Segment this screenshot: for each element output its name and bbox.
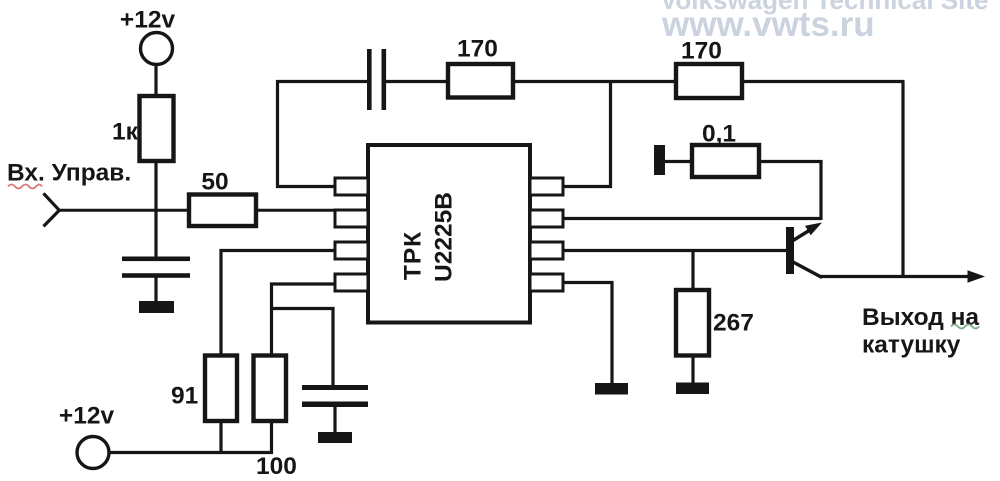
svg-text:Вх. Управ.: Вх. Управ. xyxy=(7,160,131,187)
capacitor C input top plate xyxy=(122,257,190,262)
output arrowhead xyxy=(968,270,986,282)
wire pin L3 to R91 xyxy=(221,251,336,357)
svg-text:170: 170 xyxy=(457,36,498,63)
wire corner down to emitter node xyxy=(819,162,822,221)
transistor Q1 emitter arrowhead xyxy=(805,223,822,236)
capacitor C bottom top plate xyxy=(302,385,368,390)
svg-text:катушку: катушку xyxy=(862,332,961,359)
wire cap to ground xyxy=(154,278,157,303)
resistor R50 body xyxy=(189,195,256,227)
IC pin L2 xyxy=(335,210,368,227)
wire R100 bottom to rail xyxy=(270,421,273,454)
svg-text:100: 100 xyxy=(256,453,297,480)
wire right corner down to output line xyxy=(901,82,904,278)
resistor R170a body xyxy=(448,64,513,98)
input chevron terminal xyxy=(44,193,60,226)
resistor R1k body xyxy=(140,96,174,161)
IC pin L4 xyxy=(335,274,368,291)
ground bar bottom cap xyxy=(318,432,352,443)
wire R170a to R170b with junction xyxy=(513,80,677,83)
IC pin R4 xyxy=(530,274,563,291)
svg-text:267: 267 xyxy=(713,310,754,337)
IC pin L3 xyxy=(335,242,368,259)
capacitor C input bottom plate xyxy=(122,273,190,278)
capacitor C series right plate xyxy=(382,49,387,110)
capacitor C bottom bottom plate xyxy=(302,402,368,408)
resistor R100 body xyxy=(254,356,287,422)
svg-text:U2225В: U2225В xyxy=(431,192,458,282)
wire R1k down through input node to capacitor xyxy=(154,161,157,257)
IC U1 body ТРК U2225B xyxy=(368,145,530,323)
wire R170b to right corner xyxy=(742,80,905,83)
svg-text:1к: 1к xyxy=(112,119,139,146)
ground bar pin R4 xyxy=(595,383,628,395)
wire bottom cap to ground xyxy=(333,407,336,433)
ground bar R267 xyxy=(676,383,709,395)
red spellcheck squiggle under Вх. xyxy=(8,185,42,189)
power +12v top terminal circle xyxy=(141,33,173,65)
resistor R170b body xyxy=(676,64,742,98)
IC pin R3 xyxy=(530,242,563,259)
wire chevron to R50 xyxy=(58,209,190,212)
wire pin R2 to emitter node xyxy=(562,217,821,220)
wire pin L4 to R100 xyxy=(272,284,337,356)
wire pin R3 to transistor base xyxy=(562,249,787,252)
wire junction down to pin R1 xyxy=(562,82,611,187)
IC pin R2 xyxy=(530,210,563,227)
resistor R91 body xyxy=(205,356,237,422)
svg-text:50: 50 xyxy=(201,169,228,196)
component 0,1 box body xyxy=(692,145,759,177)
capacitor C series left plate xyxy=(367,49,372,110)
transistor Q1 collector lead xyxy=(793,262,822,278)
wire R91 bottom to rail xyxy=(219,421,222,453)
wire pin L1 feedback loop up-left xyxy=(278,82,371,187)
wire output line xyxy=(820,275,972,278)
wire pin R4 to ground xyxy=(562,283,612,385)
svg-text:+12v: +12v xyxy=(120,7,176,34)
resistor R267 body xyxy=(676,290,709,356)
IC pin R1 xyxy=(530,178,563,195)
svg-text:170: 170 xyxy=(681,38,722,65)
IC pin L1 xyxy=(335,178,368,195)
wire base junction down to R267 xyxy=(691,251,694,292)
wire 0,1 box right to corner xyxy=(759,160,823,163)
green squiggle under на xyxy=(951,325,979,329)
wire 0,1 bar to box xyxy=(665,160,693,163)
svg-text:ТРК: ТРК xyxy=(400,231,427,280)
svg-text:0,1: 0,1 xyxy=(702,121,736,148)
capacitor C 0,1 plate bar xyxy=(654,145,665,175)
wire R267 to ground xyxy=(691,356,694,385)
svg-text:Выход на: Выход на xyxy=(862,304,979,331)
transistor Q1 emitter lead xyxy=(793,228,814,241)
wire R50 to IC pin L2 xyxy=(256,209,336,212)
wire branch to bottom capacitor xyxy=(272,309,334,387)
transistor Q1 base bar xyxy=(786,227,794,274)
wire +12v circle to R1k xyxy=(154,64,157,99)
svg-text:91: 91 xyxy=(171,383,198,410)
wire series cap to R170a xyxy=(386,80,449,83)
ground bar input cap xyxy=(139,301,174,313)
power +12v bottom terminal circle xyxy=(77,437,109,469)
wire bottom supply rail xyxy=(108,451,274,454)
svg-text:+12v: +12v xyxy=(59,403,115,430)
